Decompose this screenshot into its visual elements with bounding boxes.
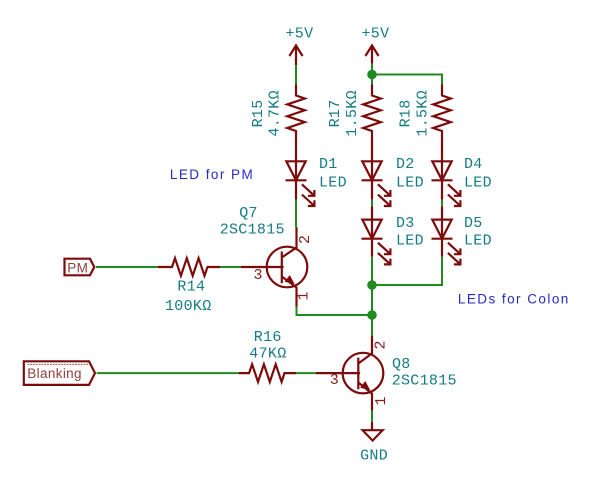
LED D3 (362, 206, 424, 264)
svg-text:LED: LED (319, 174, 347, 191)
svg-text:47KΩ: 47KΩ (249, 346, 286, 363)
svg-text:Blanking: Blanking (27, 366, 82, 381)
power +5V symbol (column A) (286, 26, 314, 66)
LED D2 (362, 156, 424, 206)
svg-text:R14: R14 (177, 279, 205, 296)
svg-text:2: 2 (372, 340, 389, 349)
LED D1 (286, 156, 347, 206)
wire power B down through junction (371, 64, 373, 85)
transistor Q8 (316, 336, 457, 411)
resistor R16 (239, 329, 296, 382)
svg-text:R16: R16 (254, 329, 282, 346)
junction node (372,315) (367, 310, 377, 320)
wire Q8 emitter to GND (371, 411, 373, 423)
svg-text:LED: LED (464, 174, 492, 191)
svg-text:Q8: Q8 (392, 356, 411, 373)
svg-text:D4: D4 (464, 156, 483, 173)
svg-text:1.5KΩ: 1.5KΩ (344, 90, 361, 137)
svg-text:4.7KΩ: 4.7KΩ (267, 90, 284, 137)
wire D1 to Q7 collector (295, 200, 297, 228)
junction node (372,74.5) (367, 70, 377, 80)
svg-text:LED: LED (464, 233, 492, 250)
svg-text:1.5KΩ: 1.5KΩ (415, 90, 432, 137)
svg-text:D3: D3 (396, 215, 415, 232)
resistor R14 (158, 258, 220, 315)
svg-text:GND: GND (360, 448, 388, 465)
wire junction to column C (372, 75, 442, 85)
hierarchical label PM (65, 259, 95, 276)
transistor Q7 (220, 205, 308, 307)
svg-text:+5V: +5V (362, 26, 390, 43)
svg-text:100KΩ: 100KΩ (165, 298, 212, 315)
ground GND (360, 422, 388, 465)
wire D3 down to Q8 collector (371, 257, 373, 336)
svg-text:2SC1815: 2SC1815 (220, 222, 285, 239)
svg-text:3: 3 (254, 267, 263, 284)
svg-text:LED: LED (396, 174, 424, 191)
wire D4 to D5 (441, 200, 443, 207)
svg-text:3: 3 (330, 372, 339, 389)
wire PM to R14 (96, 266, 158, 268)
svg-text:D2: D2 (396, 156, 415, 173)
svg-text:LED for PM: LED for PM (170, 167, 254, 182)
resistor R15 (250, 85, 305, 162)
svg-text:2SC1815: 2SC1815 (392, 373, 457, 390)
wire R16 to Q8 base (296, 372, 316, 374)
hierarchical label Blanking (24, 361, 95, 385)
svg-text:PM: PM (67, 260, 88, 275)
svg-text:2: 2 (297, 235, 314, 244)
svg-text:1: 1 (296, 291, 313, 300)
svg-text:LED: LED (396, 233, 424, 250)
svg-text:R15: R15 (250, 99, 267, 127)
svg-text:D1: D1 (319, 156, 338, 173)
wire power A to R15 (295, 65, 297, 84)
svg-text:R18: R18 (398, 99, 415, 127)
LED D5 (432, 206, 492, 264)
wire Q7 emitter to junction (297, 307, 373, 316)
wire Blanking to R16 (97, 372, 239, 374)
svg-text:D5: D5 (464, 215, 483, 232)
svg-text:LEDs for Colon: LEDs for Colon (458, 291, 570, 306)
svg-text:+5V: +5V (286, 26, 314, 43)
junction node (372,285) (367, 280, 377, 290)
svg-text:1: 1 (373, 396, 390, 405)
wire D5 down and across to junction (372, 257, 442, 285)
svg-text:R17: R17 (327, 99, 344, 127)
power +5V symbol (column B) (362, 26, 390, 64)
wire D2 to D3 (371, 200, 373, 207)
resistor R18 (398, 85, 451, 162)
wire R14 to Q7 base (220, 266, 241, 268)
svg-text:Q7: Q7 (239, 205, 258, 222)
resistor R17 (327, 85, 381, 162)
LED D4 (432, 156, 492, 206)
